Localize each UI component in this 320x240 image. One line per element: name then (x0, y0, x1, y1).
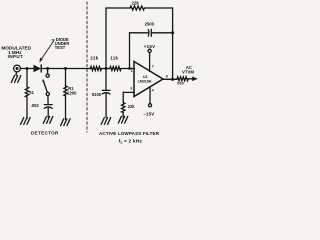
label AC VTVM (182, 65, 194, 75)
op-amp U1 LM318H (134, 62, 163, 97)
svg-text:LM318H: LM318H (138, 79, 152, 83)
svg-text:DETECTOR: DETECTOR (31, 131, 59, 136)
wire (65, 69, 67, 86)
ground (21, 118, 31, 125)
svg-text:5100: 5100 (92, 92, 102, 97)
dashed section separator (86, 2, 88, 132)
leader arrow to diode (39, 40, 54, 63)
svg-text:22k: 22k (128, 104, 136, 109)
svg-text:+15V: +15V (144, 44, 156, 49)
wire (122, 113, 124, 118)
svg-text:7: 7 (152, 64, 154, 68)
ground (118, 116, 128, 123)
wire (65, 96, 67, 120)
node X junction (105, 67, 108, 70)
svg-text:6: 6 (166, 74, 168, 78)
wire (102, 68, 110, 70)
wire output (163, 78, 177, 80)
resistor 22k (pin 3 to ground) (121, 103, 124, 113)
svg-text:510: 510 (177, 80, 184, 85)
svg-text:2: 2 (131, 69, 133, 73)
node (R1 branch) (64, 67, 67, 70)
svg-text:VTVM: VTVM (182, 69, 194, 74)
svg-text:3: 3 (130, 87, 132, 91)
node (51-ohm branch) (26, 67, 29, 70)
resistor 51 (25, 87, 28, 97)
feedback resistor 22k (top loop) (106, 6, 173, 79)
switch S1 (42, 69, 49, 105)
node (inverting input) (128, 67, 131, 70)
resistor 22k (filter input) (90, 67, 101, 71)
labels R1 2200 (67, 86, 77, 96)
resistor 11k (110, 67, 121, 71)
diode under test (34, 65, 41, 72)
paper background (blurred group) (11, 2, 197, 132)
wire + output arrow to AC VTVM (188, 77, 197, 81)
node (switch branch) (46, 67, 49, 70)
+15V supply (pin 7) (148, 49, 151, 71)
svg-text:ACTIVE LOWPASS FILTER: ACTIVE LOWPASS FILTER (99, 131, 160, 136)
wire to inverting input (121, 68, 135, 70)
capacitor 5100 (node X to ground) (102, 69, 110, 118)
svg-text:INPUT: INPUT (8, 54, 23, 59)
wire main line (input to op-amp) (20, 68, 33, 70)
wire (26, 69, 28, 88)
wire (26, 97, 28, 118)
svg-text:4: 4 (152, 89, 154, 93)
resistor R1 2200 (64, 86, 67, 96)
ground (101, 118, 111, 125)
capacitor .002 (44, 105, 52, 117)
pin numbers (130, 64, 168, 92)
svg-text:2200: 2200 (67, 90, 77, 95)
svg-text:2500: 2500 (145, 21, 155, 26)
svg-text:.002: .002 (31, 103, 40, 108)
ground (connector shell) (11, 72, 20, 82)
resistor 510 (177, 77, 188, 81)
svg-text:51: 51 (29, 90, 34, 95)
label MODULATED 1 MHz INPUT (1, 46, 31, 59)
svg-text:TEST: TEST (55, 45, 66, 50)
-15V supply (pin 4) (148, 87, 151, 107)
svg-text:fc = 2 kHz: fc = 2 kHz (119, 138, 143, 144)
svg-text:11k: 11k (110, 55, 118, 60)
svg-text:22k: 22k (90, 55, 98, 60)
feedback capacitor 2500 (130, 29, 173, 68)
op-amp designator U1 LM318H (138, 75, 152, 83)
input connector J1 (14, 65, 21, 72)
ground (43, 117, 53, 124)
svg-text:22k: 22k (132, 1, 140, 6)
ground (61, 119, 71, 126)
wire pin 3 (non-inverting input) (123, 92, 134, 102)
svg-text:−15V: −15V (143, 112, 154, 117)
node (feedback junction) (171, 31, 174, 34)
label DIODE UNDER TEST (55, 37, 70, 50)
node (output junction) (171, 78, 174, 81)
wire (42, 68, 91, 70)
